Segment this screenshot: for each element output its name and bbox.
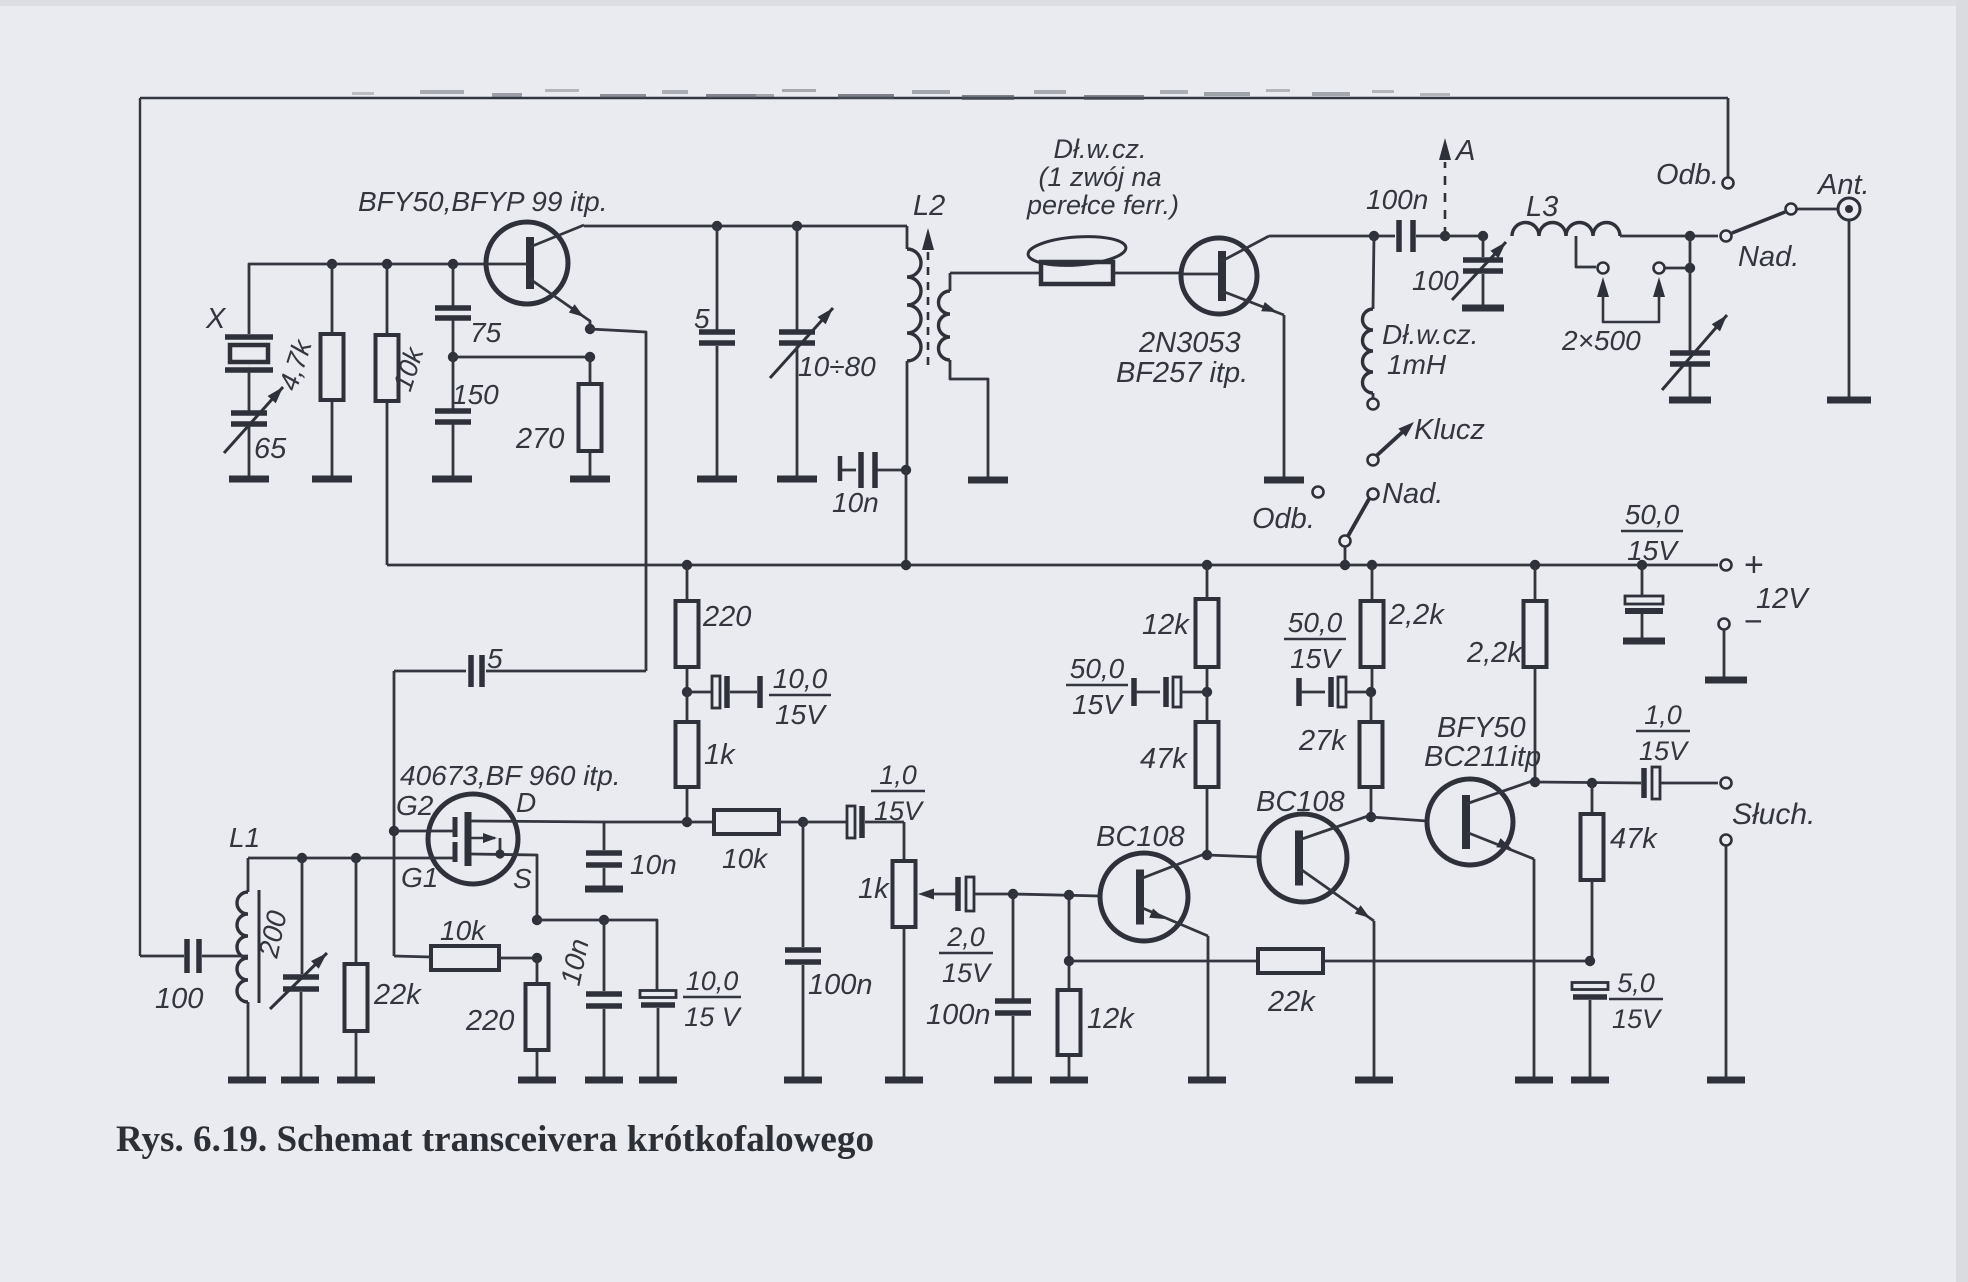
wire L2 primary bottom xyxy=(906,361,909,470)
node rail-L2 junction xyxy=(901,560,911,570)
ground 4.7k xyxy=(312,476,352,483)
trimmer capacitor 200 xyxy=(283,974,319,980)
ground crystal branch xyxy=(229,476,269,483)
wire G2 lead xyxy=(394,830,455,833)
svg-text:G1: G1 xyxy=(401,862,438,893)
wire T4 collector lead xyxy=(1299,815,1371,840)
svg-text:12k: 12k xyxy=(1142,609,1190,641)
inductor Dl.w.cz. 1mH xyxy=(1363,309,1374,393)
mosfet M1 40673 body xyxy=(428,794,518,884)
svg-text:+: + xyxy=(1744,546,1764,584)
svg-text:15V: 15V xyxy=(1627,535,1679,566)
switch blade Nad xyxy=(1732,212,1785,233)
node 47k-5u junction xyxy=(1585,956,1595,966)
resistor 27k xyxy=(1370,692,1373,722)
node 12k-47k junction xyxy=(1202,687,1212,697)
trimmer capacitor 65 xyxy=(231,410,267,416)
svg-text:1k: 1k xyxy=(858,873,890,905)
node rail-key junction xyxy=(1340,560,1350,570)
capacitor 2,0/15V xyxy=(955,877,961,911)
svg-text:BF257 itp.: BF257 itp. xyxy=(1116,357,1248,389)
svg-text:12V: 12V xyxy=(1756,583,1810,615)
resistor 1k (buffer) xyxy=(686,692,689,722)
wire S lead xyxy=(471,854,537,920)
terminal Nad contact xyxy=(1368,489,1379,500)
capacitor 5,0/15V xyxy=(1572,983,1608,990)
svg-text:10k: 10k xyxy=(440,915,487,946)
svg-text:(1 zwój na: (1 zwój na xyxy=(1038,162,1161,192)
wire AF base xyxy=(1013,894,1100,896)
capacitor 10n (source) xyxy=(603,920,606,991)
node G2 junction xyxy=(389,826,399,836)
inductor L1 core line xyxy=(258,890,261,1003)
terminal +12V xyxy=(1721,560,1732,571)
inductor L2 primary xyxy=(907,249,921,361)
svg-text:100n: 100n xyxy=(926,999,991,1031)
wire T2 collector to 100n xyxy=(1269,235,1395,238)
svg-text:2,2k: 2,2k xyxy=(1388,599,1445,631)
resistor 12k (T3 bias) xyxy=(1206,565,1209,599)
svg-text:220: 220 xyxy=(702,601,751,633)
wire T1 collector lead xyxy=(530,225,584,247)
ground 270 xyxy=(570,476,610,483)
node emitter-270 junction xyxy=(585,352,595,362)
svg-text:100n: 100n xyxy=(1366,184,1428,215)
wire T3 emitter lead xyxy=(1140,907,1208,936)
svg-text:Dł.w.cz.: Dł.w.cz. xyxy=(1382,319,1478,350)
resistor 270 xyxy=(589,357,592,384)
ground 100n AF xyxy=(994,1077,1032,1084)
svg-text:15V: 15V xyxy=(1290,643,1342,674)
svg-text:2N3053: 2N3053 xyxy=(1138,327,1241,359)
terminal tap contact xyxy=(1598,263,1609,274)
capacitor 50,0/15V (rail) xyxy=(1641,565,1644,596)
svg-text:Słuch.: Słuch. xyxy=(1732,798,1815,831)
wire +12V rail xyxy=(387,564,1718,567)
svg-text:L3: L3 xyxy=(1526,191,1558,223)
svg-text:BC108: BC108 xyxy=(1096,821,1185,853)
svg-text:BC211itp: BC211itp xyxy=(1424,741,1541,773)
ground 22k gate xyxy=(337,1077,375,1084)
wire key to rail xyxy=(1344,546,1347,565)
ground 10n source xyxy=(585,1077,623,1084)
node 12k-22k junction xyxy=(1064,956,1074,966)
transistor T2 2N3053 xyxy=(1181,238,1257,314)
inductor L2 secondary xyxy=(939,291,951,360)
svg-text:50,0: 50,0 xyxy=(1625,499,1680,530)
node 220-1k junction xyxy=(682,687,692,697)
wire T3 collector to T4 base xyxy=(1207,855,1259,857)
wire D lead xyxy=(471,821,604,822)
wire S to bypass caps xyxy=(537,920,657,991)
svg-text:1,0: 1,0 xyxy=(879,760,917,790)
wire L2 secondary top xyxy=(949,273,952,291)
node collector-5pF junction xyxy=(712,221,722,231)
svg-text:65: 65 xyxy=(254,433,287,465)
svg-text:15V: 15V xyxy=(874,796,925,826)
svg-text:Ant.: Ant. xyxy=(1816,169,1870,201)
ground 5u xyxy=(1571,1077,1609,1084)
terminal headphones return xyxy=(1721,835,1732,846)
resistor 12k (AF low) xyxy=(1068,1055,1071,1077)
svg-text:12k: 12k xyxy=(1087,1003,1135,1035)
resistor 2,2k (T4) xyxy=(1371,565,1374,601)
capacitor 5 (coupling) xyxy=(486,670,646,673)
svg-text:40673,BF 960 itp.: 40673,BF 960 itp. xyxy=(400,760,621,791)
resistor 22k (gate) xyxy=(355,858,358,964)
node T4 collector junction xyxy=(1366,812,1376,822)
capacitor 1,0/15V (AF in) xyxy=(803,821,847,824)
capacitor 100n (PA) xyxy=(1396,220,1402,252)
resistor 47k (output) xyxy=(1591,783,1594,814)
svg-text:50,0: 50,0 xyxy=(1288,607,1343,638)
node rail-2.2k2 junction xyxy=(1530,560,1540,570)
wire 75/150 junction to emitter node xyxy=(453,356,590,359)
potentiometer 1k (volume) xyxy=(903,927,906,1077)
pot wiper arrow xyxy=(924,893,957,896)
capacitor 50,0/15V (T3) xyxy=(1131,678,1137,706)
transistor T1 BFY50 xyxy=(486,222,568,304)
node base-75 junction xyxy=(448,259,458,269)
wire contact to output xyxy=(1665,267,1690,270)
trimmer capacitor antenna xyxy=(1670,350,1710,356)
wire antenna trimmer to ground xyxy=(1689,366,1692,397)
svg-text:BFY50,BFYP 99 itp.: BFY50,BFYP 99 itp. xyxy=(358,186,608,217)
svg-text:Rys. 6.19. Schemat transceiver: Rys. 6.19. Schemat transceivera krótkofa… xyxy=(116,1119,874,1160)
svg-text:L1: L1 xyxy=(229,822,260,853)
ground -12V xyxy=(1705,677,1747,684)
wire T2 base lead xyxy=(1181,273,1219,276)
svg-text:50,0: 50,0 xyxy=(1070,653,1125,684)
node base-47k junction xyxy=(327,259,337,269)
wire T2 emitter down xyxy=(1283,315,1286,477)
svg-text:10k: 10k xyxy=(722,843,769,874)
svg-text:5: 5 xyxy=(487,643,503,674)
wire L3 tap xyxy=(1576,236,1596,267)
node base-10k junction xyxy=(382,259,392,269)
wire drain to 10k xyxy=(604,821,714,824)
wire T1 collector rail xyxy=(584,225,907,228)
resistor 10k (source) xyxy=(431,946,499,970)
inductor L1 xyxy=(237,892,248,1002)
inductor L3 xyxy=(1512,223,1620,237)
svg-text:47k: 47k xyxy=(1610,823,1658,855)
node T1 emitter junction xyxy=(585,324,595,334)
ground T4 emitter xyxy=(1355,1077,1393,1084)
svg-text:5: 5 xyxy=(694,303,710,334)
node T3 collector junction xyxy=(1202,850,1212,860)
node base-12k junction xyxy=(1064,890,1074,900)
antenna terminal Ant. xyxy=(1838,198,1860,220)
wire throw to antenna xyxy=(1797,208,1838,211)
selector arrows 2x500 xyxy=(1597,277,1609,297)
ground 220 source xyxy=(518,1077,556,1084)
svg-text:5,0: 5,0 xyxy=(1617,968,1655,998)
transistor T5 BFY50 xyxy=(1427,779,1513,865)
wire T1 emitter lead xyxy=(530,279,590,329)
terminal output contact xyxy=(1654,263,1665,274)
svg-text:15V: 15V xyxy=(1612,1004,1663,1034)
transistor T3 BC108 xyxy=(1100,853,1188,941)
ground L1 xyxy=(228,1077,266,1084)
node rail-12k junction xyxy=(1202,560,1212,570)
terminal Odb contact xyxy=(1313,487,1324,498)
capacitor 100 (antenna coupling) xyxy=(140,955,184,958)
terminal Klucz pivot xyxy=(1368,455,1379,466)
resistor 220 (source) xyxy=(536,958,539,984)
node output-cap junction xyxy=(1685,263,1695,273)
svg-text:15 V: 15 V xyxy=(684,1002,743,1032)
wire T5 collector lead xyxy=(1466,780,1535,804)
transistor T4 BC108 xyxy=(1259,814,1347,902)
capacitor 1,0/15V (output) xyxy=(1641,768,1647,798)
wire crystal to trimmer xyxy=(248,370,251,411)
svg-text:X: X xyxy=(205,303,227,335)
resistor 220 (buffer) xyxy=(686,565,689,601)
wire T1 base lead xyxy=(486,263,527,266)
wire trimmer 200 bottom xyxy=(300,992,303,1077)
svg-text:10n: 10n xyxy=(832,487,879,518)
wire T3 collector lead xyxy=(1140,853,1207,879)
wire choke bottom lead xyxy=(1372,393,1375,399)
wire A junction to trimmer xyxy=(1445,235,1483,238)
ground antenna xyxy=(1827,397,1871,404)
wire antenna to ground xyxy=(1848,220,1851,397)
capacitor 10n (osc) xyxy=(838,456,843,481)
ground T5 emitter xyxy=(1515,1077,1553,1084)
node A junction xyxy=(1440,231,1450,241)
L2 adjustable core xyxy=(927,252,930,372)
node drain-1k junction xyxy=(682,817,692,827)
wire T5 collector out xyxy=(1535,782,1641,783)
svg-text:2×500: 2×500 xyxy=(1561,325,1641,356)
wire T4 collector to T5 base xyxy=(1371,817,1427,821)
scan noise band above frame xyxy=(352,89,1450,100)
wire left frame (antenna feedback to L1) xyxy=(139,98,141,956)
wire junction down to antenna trimmer xyxy=(1689,236,1692,351)
svg-text:10,0: 10,0 xyxy=(773,663,828,694)
node S-10n junction xyxy=(599,915,609,925)
ground 5pF xyxy=(697,476,737,483)
wire -12V to ground xyxy=(1723,630,1726,677)
wire T4 emitter down xyxy=(1373,921,1376,1077)
svg-text:75: 75 xyxy=(470,317,502,348)
svg-text:27k: 27k xyxy=(1298,725,1347,757)
mosfet substrate arrow xyxy=(471,837,495,840)
svg-text:BFY50: BFY50 xyxy=(1437,712,1526,744)
terminal key lower xyxy=(1340,536,1351,547)
svg-text:1k: 1k xyxy=(704,739,736,771)
wire L1 top xyxy=(247,858,250,892)
ground T2 emitter xyxy=(1264,477,1304,484)
ground trimmer 200 xyxy=(281,1077,319,1084)
switch blade Klucz xyxy=(1374,427,1408,458)
svg-text:10,0: 10,0 xyxy=(686,966,739,996)
svg-text:100: 100 xyxy=(1412,265,1459,296)
svg-text:1,0: 1,0 xyxy=(1644,700,1682,730)
svg-text:Odb.: Odb. xyxy=(1656,159,1719,191)
ground 12k AF xyxy=(1050,1077,1088,1084)
wire feedback line xyxy=(1069,960,1590,963)
capacitor 10,0/15V (buffer) xyxy=(687,691,712,694)
svg-text:A: A xyxy=(1454,135,1475,167)
node 22k top junction xyxy=(351,853,361,863)
node L2-10n junction xyxy=(901,465,911,475)
crystal X xyxy=(225,334,273,340)
trimmer capacitor 10÷80 xyxy=(796,226,799,330)
node 2.2k-27k junction xyxy=(1366,687,1376,697)
svg-text:100: 100 xyxy=(155,983,203,1015)
node rail-2.2k junction xyxy=(1367,560,1377,570)
ground T3 emitter xyxy=(1188,1077,1226,1084)
capacitor 100n (mixer out) xyxy=(802,822,805,947)
svg-text:22k: 22k xyxy=(373,979,422,1011)
node L1 top junction xyxy=(297,853,307,863)
capacitor 10,0/15V (source) xyxy=(640,991,676,998)
ground rail capacitor xyxy=(1623,638,1665,645)
capacitor 50,0/15V (T4) xyxy=(1296,678,1302,706)
node collector-trimmer junction xyxy=(792,221,802,231)
terminal headphones hot xyxy=(1721,778,1732,789)
wire choke top lead xyxy=(1373,236,1374,309)
ground 150 xyxy=(432,476,472,483)
svg-text:Nad.: Nad. xyxy=(1382,478,1443,510)
antenna node A dashed arrow xyxy=(1444,162,1447,236)
svg-text:Nad.: Nad. xyxy=(1738,241,1799,273)
svg-text:1mH: 1mH xyxy=(1387,349,1447,380)
capacitor 100n (AF) xyxy=(1012,894,1015,999)
resistor 10k (AF) xyxy=(714,810,779,834)
resistor 22k (feedback) xyxy=(1258,949,1323,973)
wire to volume pot xyxy=(903,822,906,861)
capacitor 5 (tank) xyxy=(716,226,719,330)
wire L2 primary top xyxy=(906,226,909,249)
svg-text:100n: 100n xyxy=(808,969,873,1001)
terminal choke bottom xyxy=(1368,399,1379,410)
node rail-220 junction xyxy=(682,560,692,570)
node AF input junction xyxy=(1008,889,1018,899)
svg-text:270: 270 xyxy=(515,423,564,455)
trimmer capacitor 100 xyxy=(1482,236,1485,257)
wire trimmer 200 top xyxy=(301,858,304,974)
node choke junction xyxy=(1369,231,1379,241)
svg-text:Dł.w.cz.: Dł.w.cz. xyxy=(1053,134,1146,164)
svg-text:L2: L2 xyxy=(913,190,945,222)
svg-text:perełce ferr.): perełce ferr.) xyxy=(1026,190,1179,220)
resistor 47k (T3 bias) xyxy=(1206,692,1209,722)
svg-text:G2: G2 xyxy=(396,790,434,821)
wire headphones return xyxy=(1725,846,1728,1077)
svg-text:150: 150 xyxy=(452,379,499,410)
svg-text:D: D xyxy=(516,787,536,818)
svg-text:15V: 15V xyxy=(1639,736,1690,766)
svg-text:S: S xyxy=(513,863,532,894)
node S wire junction xyxy=(532,915,542,925)
node L3 output junction xyxy=(1685,231,1695,241)
resistor 4.7k xyxy=(331,264,334,334)
ground 10n drain xyxy=(585,886,623,893)
ground trimmer 10÷80 xyxy=(777,476,817,483)
svg-text:15V: 15V xyxy=(942,958,993,988)
node trimmer-100 junction xyxy=(1478,231,1488,241)
wire bead to T2 base xyxy=(1113,272,1181,275)
ground antenna trimmer xyxy=(1669,397,1711,404)
mosfet channel bar xyxy=(465,812,472,866)
terminal Nad switch throw xyxy=(1786,204,1797,215)
terminal Nad switch pivot xyxy=(1721,231,1732,242)
ground 10u source xyxy=(639,1077,677,1084)
wire L2 secondary bottom xyxy=(950,360,988,477)
svg-text:10÷80: 10÷80 xyxy=(798,351,876,382)
node rail-50u junction xyxy=(1637,560,1647,570)
ground headphones xyxy=(1707,1077,1745,1084)
capacitor 150 xyxy=(452,357,455,409)
wire G2 feed line xyxy=(393,671,396,956)
wire T5 emitter down xyxy=(1533,859,1536,1077)
wire trimmer to ground xyxy=(248,426,251,477)
svg-text:Klucz: Klucz xyxy=(1414,414,1485,446)
wire Odb drop xyxy=(1727,98,1730,177)
ground pot xyxy=(885,1077,923,1084)
wire base to 12k xyxy=(1068,895,1071,990)
svg-text:Odb.: Odb. xyxy=(1252,503,1315,535)
svg-text:22k: 22k xyxy=(1267,986,1316,1018)
capacitor 75 xyxy=(452,264,455,306)
terminal Odb (receive) xyxy=(1723,178,1734,189)
resistor 10k bias xyxy=(386,264,389,335)
node 75-150 junction xyxy=(448,352,458,362)
wire T4 emitter lead xyxy=(1299,868,1374,921)
svg-text:2,0: 2,0 xyxy=(946,922,985,952)
wire G1 lead xyxy=(248,857,455,860)
svg-text:47k: 47k xyxy=(1140,743,1188,775)
wire emitter to coupling line xyxy=(590,329,646,671)
wire L2 secondary to bead xyxy=(950,272,1041,275)
wire L3 to switch xyxy=(1620,235,1718,238)
ground trimmer 100 xyxy=(1462,305,1504,312)
mosfet gate bars xyxy=(453,817,458,837)
ferrite bead (1 turn) body xyxy=(1041,262,1113,284)
switch blade Nad-key xyxy=(1348,499,1369,536)
svg-text:220: 220 xyxy=(465,1005,514,1037)
node S-10k junction xyxy=(532,953,542,963)
capacitor 10n (drain) xyxy=(603,822,606,850)
terminal -12V xyxy=(1719,619,1730,630)
node 47k out junction xyxy=(1587,778,1597,788)
wire T2 collector lead xyxy=(1222,236,1269,261)
svg-text:10n: 10n xyxy=(630,849,677,880)
svg-text:−: − xyxy=(1744,603,1763,639)
wire top frame (Odb return line) xyxy=(140,97,1728,99)
svg-text:2,2k: 2,2k xyxy=(1466,637,1523,669)
wire T5 emitter lead xyxy=(1466,832,1534,859)
wire L2 bottom to +12V rail xyxy=(905,470,908,565)
ground L2 secondary xyxy=(968,477,1008,484)
ground 100n mixer xyxy=(784,1077,822,1084)
svg-text:15V: 15V xyxy=(1072,689,1124,720)
wire T2 emitter lead xyxy=(1222,291,1284,315)
node 10k-100n junction xyxy=(798,817,808,827)
resistor 2,2k (T5) xyxy=(1534,565,1537,601)
svg-text:15V: 15V xyxy=(775,699,827,730)
wire oscillator base rail xyxy=(249,264,486,334)
svg-text:BC108: BC108 xyxy=(1256,786,1345,818)
node T5 collector junction xyxy=(1530,777,1540,787)
wire T3 emitter down xyxy=(1207,936,1210,1077)
wire L1 bottom xyxy=(247,1002,250,1077)
